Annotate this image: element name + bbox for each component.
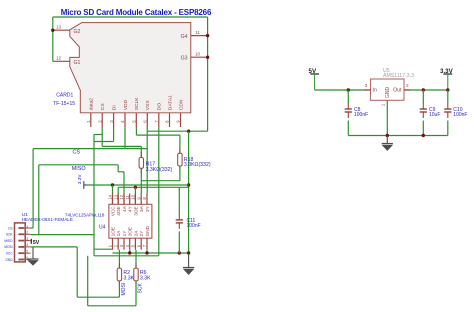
wire MISO down to U4 4A: [123, 172, 125, 205]
card pin 9 CDN: [176, 99, 185, 127]
svg-text:74LVC125APW,118: 74LVC125APW,118: [65, 212, 105, 217]
U5 pin 3 In: [364, 83, 377, 93]
svg-text:12: 12: [56, 56, 62, 61]
svg-text:3.3K: 3.3K: [140, 275, 151, 281]
svg-text:CS: CS: [8, 226, 12, 230]
U4 pin 1 1OE: [108, 227, 116, 250]
svg-text:11: 11: [195, 30, 200, 35]
U4 pin 4 2OE: [125, 227, 133, 250]
U4 pin 9 3A: [136, 194, 144, 213]
card pin 13 G2: [53, 25, 81, 35]
wire OE rail to pin13: [117, 187, 119, 204]
header pin 3 MISO: [4, 237, 30, 243]
svg-text:VCC: VCC: [110, 206, 115, 217]
card pin 11 G4: [181, 30, 208, 40]
wire R18 bottom horizontal: [141, 180, 180, 182]
svg-text:CDN: CDN: [178, 99, 184, 110]
U4 pin 11 4Y: [125, 194, 133, 213]
power flag 5V: [309, 68, 320, 90]
header pin 5 VCC: [6, 250, 31, 256]
svg-text:1: 1: [380, 103, 385, 106]
svg-text:4OE: 4OE: [116, 206, 121, 215]
card pin 8 DATA1: [165, 95, 174, 127]
wire header pin1 stub link: [31, 227, 33, 229]
wire C9 top lead: [422, 90, 424, 104]
wire C10 top lead: [447, 90, 449, 104]
svg-text:2: 2: [26, 231, 28, 235]
svg-text:1A: 1A: [116, 230, 121, 237]
svg-text:3.3KΩ(332): 3.3KΩ(332): [146, 167, 173, 173]
card pin 10 G3: [181, 52, 208, 62]
resistor R18: [178, 148, 211, 171]
wire R2 bottom lead: [118, 281, 120, 297]
svg-text:MOSI: MOSI: [4, 245, 12, 249]
wire card DI drop: [113, 127, 115, 142]
wire MOSI bottom horizontal: [77, 296, 119, 298]
svg-text:In: In: [373, 88, 377, 94]
capacitor C9: [420, 103, 441, 118]
regulator U5 AMS1117-3.3 labels: [383, 68, 414, 79]
power flag 3.3V left: [77, 174, 87, 189]
junction C8 top: [347, 88, 350, 91]
svg-text:3: 3: [26, 237, 28, 241]
header pin 6 GND: [5, 256, 30, 262]
wire MISO left vertical: [38, 165, 40, 235]
U4 pin 2 1A: [113, 230, 121, 250]
svg-text:2OE: 2OE: [128, 227, 133, 236]
card pin 12 G1: [53, 56, 81, 66]
card pin 5 SCLK: [132, 97, 141, 127]
svg-text:HEADER-06X1-FEMALE: HEADER-06X1-FEMALE: [22, 217, 73, 222]
svg-text:Micro SD Card Module Catalex -: Micro SD Card Module Catalex - ESP8266: [61, 8, 212, 17]
junction at G4 pin: [206, 34, 209, 37]
svg-text:5: 5: [26, 250, 28, 254]
svg-text:3A: 3A: [139, 205, 144, 212]
svg-text:100nF: 100nF: [354, 112, 368, 118]
wire 5V to regulator In: [315, 89, 371, 91]
wire R17 top lead: [140, 146, 142, 157]
resistor R6: [134, 263, 151, 286]
svg-text:2: 2: [406, 83, 409, 88]
svg-text:1Y: 1Y: [122, 230, 127, 237]
card pin 4 VDD: [120, 99, 129, 127]
junction at G3 pin: [206, 56, 209, 59]
wire card CS drop: [101, 127, 103, 146]
svg-text:DO: DO: [157, 103, 163, 111]
wire R2 top lead: [118, 250, 120, 268]
svg-text:1: 1: [26, 224, 28, 228]
capacitor C8: [345, 103, 368, 118]
junction U5 GND: [386, 134, 389, 137]
wire C10 bottom lead: [447, 121, 449, 136]
wire SCLK horizontal to R18: [136, 134, 180, 136]
svg-text:SCK: SCK: [6, 233, 13, 237]
junction U4 VCC on rail: [111, 183, 114, 186]
svg-text:GND: GND: [385, 87, 391, 99]
wire header row2 horizontal: [31, 234, 95, 236]
svg-text:MOSI: MOSI: [121, 283, 127, 296]
wire MISO jog horizontal: [118, 171, 124, 173]
wire U4 VCC drop: [112, 185, 114, 204]
svg-text:G4: G4: [181, 34, 188, 40]
svg-text:CARD1: CARD1: [56, 92, 73, 98]
capacitor C11: [176, 214, 201, 229]
wire MOSI left vertical: [76, 247, 78, 297]
junction GND stem: [187, 251, 190, 254]
U4 pin 13 4OE: [113, 194, 121, 216]
junction C11 bottom: [178, 251, 181, 254]
svg-text:VDD: VDD: [123, 99, 129, 110]
wire R18 bottom lead: [179, 166, 181, 181]
card pin 1 data2: [86, 98, 95, 127]
card pin 3 DI: [109, 105, 118, 127]
wire card VDD drop: [124, 127, 126, 149]
svg-text:U4: U4: [99, 224, 106, 230]
wire branch to U4 pin1: [94, 248, 113, 250]
wire R17 bottom lead: [140, 168, 142, 193]
svg-text:GND: GND: [145, 225, 150, 236]
header U1 reference labels: [22, 212, 73, 222]
U4 pin 10 3OE: [131, 194, 139, 216]
header U1 body: [15, 223, 26, 262]
svg-text:3: 3: [365, 83, 368, 88]
U4 pin 7 GND: [142, 225, 150, 249]
svg-text:2A: 2A: [133, 230, 138, 237]
svg-text:CS: CS: [100, 103, 106, 111]
header pin 2 SCK: [6, 231, 31, 237]
card pin 2 CS: [97, 103, 106, 127]
wire regulator GND bottom horizontal: [348, 135, 448, 137]
wire GND ring top: [53, 16, 208, 18]
svg-text:5V: 5V: [33, 240, 40, 246]
svg-text:CS: CS: [73, 150, 81, 156]
U5 pin 2 Out: [393, 83, 410, 93]
U4 pin 12 4A: [119, 194, 127, 213]
svg-text:VSS: VSS: [145, 100, 151, 111]
regulator U5 body: [371, 79, 405, 100]
CARD1 reference label: [53, 92, 75, 107]
junction 3.3V rail right end: [187, 183, 190, 186]
U4 pin 5 2A: [131, 230, 139, 250]
svg-text:SCK: SCK: [137, 283, 143, 294]
capacitor C10: [444, 103, 467, 118]
wire GND ring left vertical: [52, 17, 54, 61]
IC U4 body: [109, 204, 152, 238]
svg-text:1OE: 1OE: [110, 227, 115, 236]
junction ring corner: [187, 130, 190, 133]
wire header pin4 horizontal: [31, 246, 78, 248]
U4 pin 3 1Y: [119, 230, 127, 250]
micro SD card CARD1 body: [70, 23, 191, 113]
wire GND ring right vertical: [207, 17, 209, 131]
card pin 7 DO: [154, 103, 163, 127]
wire R6 bottom lead: [135, 281, 137, 306]
U4 pin 8 3Y: [142, 194, 150, 213]
wire U4 pin4 to GND: [129, 250, 131, 253]
svg-text:G2: G2: [74, 29, 81, 35]
IC U4 74LVC125APW,118 labels: [65, 212, 106, 230]
svg-text:3.3K: 3.3K: [123, 275, 134, 281]
card pin 6 VSS: [143, 100, 152, 127]
svg-text:10: 10: [131, 194, 136, 199]
wire card SCLK drop: [135, 127, 137, 135]
ground symbol regulator: [382, 136, 393, 151]
svg-text:100nF: 100nF: [187, 223, 201, 229]
wire C8 bottom lead: [347, 121, 349, 136]
wire CS left vertical to header pin1: [32, 149, 34, 228]
wire vertical x94: [93, 135, 95, 256]
wire SCK left vertical: [87, 256, 89, 306]
wire card CS to R17 horizontal: [102, 145, 141, 147]
svg-text:Out: Out: [393, 88, 402, 94]
wire OE rail: [118, 186, 188, 188]
svg-text:G1: G1: [74, 60, 81, 66]
svg-text:10: 10: [195, 52, 201, 57]
svg-text:GND: GND: [5, 258, 13, 262]
svg-text:SCLK: SCLK: [134, 97, 140, 111]
svg-text:4: 4: [26, 243, 28, 247]
junction C9 bottom: [422, 134, 425, 137]
svg-text:MISO: MISO: [72, 166, 86, 172]
wire bottom GND horizontal: [113, 252, 189, 254]
wire MISO horizontal: [39, 164, 118, 166]
power flag 5V at header: [31, 239, 39, 246]
svg-text:13: 13: [56, 25, 62, 30]
wire 3.3V rail: [87, 184, 189, 186]
wire R18 top lead: [179, 135, 181, 153]
svg-text:VCC: VCC: [6, 252, 13, 256]
ground symbol bottom middle: [183, 253, 194, 274]
svg-text:data2: data2: [89, 98, 95, 111]
wire ring bottom horizontal to VSS column: [147, 130, 207, 132]
wire C8 top lead: [347, 90, 349, 104]
U4 pin 14 VCC: [108, 194, 116, 217]
wire CS horizontal: [33, 148, 147, 150]
svg-text:12: 12: [119, 194, 124, 199]
svg-text:3.3KΩ(332): 3.3KΩ(332): [184, 162, 211, 168]
wire C9 bottom lead: [422, 121, 424, 136]
svg-text:3.3V: 3.3V: [77, 174, 83, 185]
wire SCK bottom horizontal: [88, 305, 136, 307]
svg-text:AMS1117-3.3: AMS1117-3.3: [383, 73, 414, 79]
wire C11 bottom lead: [178, 231, 180, 253]
wire vertical x189 ring drop: [188, 131, 190, 253]
wire pin10 drop: [134, 187, 136, 204]
svg-text:14: 14: [108, 194, 113, 199]
resistor R2: [117, 263, 134, 286]
svg-text:4Y: 4Y: [128, 205, 133, 212]
svg-text:2Y: 2Y: [139, 230, 144, 237]
wire U4 pin7 to GND: [146, 250, 148, 253]
svg-text:100nF: 100nF: [453, 112, 467, 118]
svg-text:11: 11: [125, 195, 130, 200]
svg-text:DATA1: DATA1: [167, 95, 173, 110]
wire R6 top lead: [135, 250, 137, 268]
svg-text:DI: DI: [111, 105, 117, 110]
wire regulator Out to 3.3V: [404, 89, 448, 91]
U5 pin 1 GND: [380, 87, 391, 136]
power flag 3.3V: [440, 68, 454, 90]
wire MISO jog down: [117, 165, 119, 172]
wire card CS branch horizontal: [94, 134, 102, 136]
wire MISO bottom horizontal: [94, 255, 159, 257]
junction at G2 pin: [51, 29, 54, 32]
svg-text:G3: G3: [181, 55, 188, 61]
wire card VSS vertical: [146, 127, 148, 194]
junction C9 top: [422, 88, 425, 91]
ground symbol at header: [28, 247, 39, 265]
wire card DO vertical: [158, 127, 160, 256]
junction C10 top: [446, 88, 449, 91]
header pin 1 CS: [8, 224, 31, 230]
svg-text:10uF: 10uF: [429, 112, 440, 118]
header pin 4 MOSI: [4, 243, 30, 249]
svg-text:TF-15+15: TF-15+15: [53, 101, 75, 107]
svg-text:MISO: MISO: [4, 239, 13, 243]
svg-text:3Y: 3Y: [145, 205, 150, 212]
svg-text:3OE: 3OE: [133, 206, 138, 215]
wire C11 top lead: [178, 187, 180, 214]
wire card DI horizontal: [94, 141, 114, 143]
junction OE rail pin10: [134, 186, 137, 189]
svg-text:13: 13: [113, 194, 118, 199]
U4 pin 6 2Y: [136, 230, 144, 250]
svg-text:4A: 4A: [122, 205, 127, 212]
junction U4 pin7 GND: [145, 251, 148, 254]
junction U4 pin4 GND: [128, 251, 131, 254]
resistor R17: [139, 153, 172, 174]
